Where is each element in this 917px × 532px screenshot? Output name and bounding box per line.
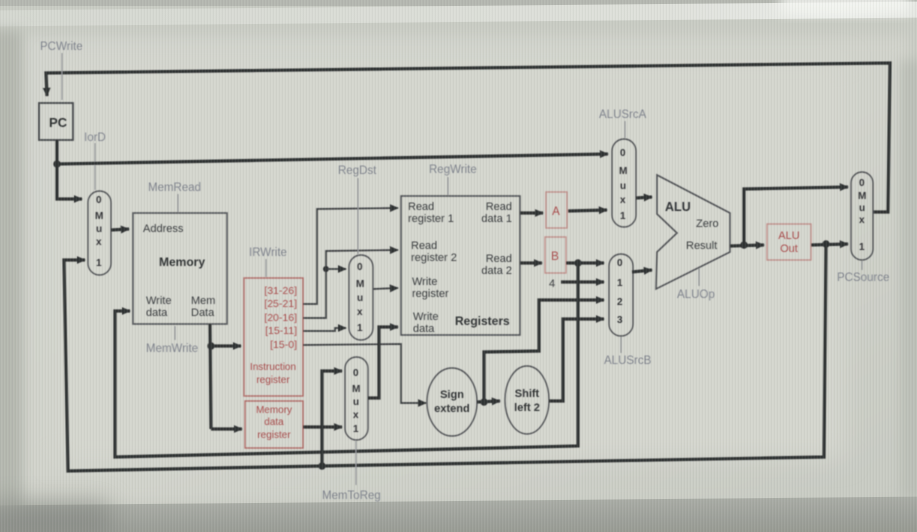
wire MemToReg mux output to Write data (368, 327, 398, 398)
wire branch to RegDst mux input 0 (326, 268, 346, 270)
wire Mem Data to instruction register (211, 344, 241, 347)
PCSource control line (861, 261, 863, 270)
ALUOp control line (698, 268, 700, 286)
MemWrite control line (174, 326, 176, 340)
memory data register (245, 401, 303, 448)
wire shift left 2 to ALUSrcB mux input 3 (549, 319, 604, 401)
node ALU Out junction (822, 240, 829, 247)
instruction register (244, 278, 303, 396)
wire IR [25-21] to Read register 1 (303, 208, 398, 304)
register file (401, 196, 520, 335)
shift left 2 unit (505, 366, 549, 434)
memory unit (133, 213, 227, 324)
node sign extend output junction (480, 398, 487, 405)
node PC-out junction (53, 160, 60, 167)
MemToReg control line (355, 441, 357, 485)
wire sign extend up to ALUSrcB mux input 2 (484, 300, 604, 402)
wire IR [15-0] to sign extend (303, 344, 426, 403)
mux MemToReg (345, 357, 368, 440)
wire ALU Out feedback bus along bottom (64, 244, 826, 471)
mux ALUSrcA (612, 139, 636, 227)
wire ALUSrcA mux output to ALU (636, 197, 652, 198)
sign extend unit (427, 368, 477, 436)
RegDst control line (357, 178, 359, 254)
wire Read data 2 to B (520, 261, 542, 264)
wire IR [15-11] to RegDst mux input 1 (303, 328, 346, 331)
RegWrite control line (447, 177, 449, 195)
node IR [20-16] branch (323, 266, 329, 272)
ALU U1 (656, 175, 730, 289)
mux PCSource (851, 172, 873, 260)
wire PC-top long feedback from PCSource mux output (46, 63, 890, 212)
wire RegDst mux output to Write register (373, 288, 398, 289)
mux ALUSrcB (609, 254, 633, 336)
wire ALUSrcB mux output to ALU (632, 270, 652, 272)
wire PC to ALUSrcA mux input 0 (57, 154, 608, 164)
wire IorD mux output to Memory Address (111, 229, 129, 230)
bottom table band (0, 496, 917, 532)
node Mem Data junction (207, 342, 214, 349)
wire ALU Out to PCSource mux input 1 (811, 244, 848, 245)
wire IR [20-16] to Read register 2 (303, 250, 398, 318)
wire Mem Data to memory data register (211, 427, 242, 430)
wire PC output down to IorD mux input 0 (57, 140, 82, 199)
mux IorD (88, 191, 111, 275)
wire B to ALUSrcB mux input 0 (566, 261, 604, 264)
wire Mem Data output down (210, 324, 211, 429)
MemRead control line (177, 194, 179, 212)
wire B down and along bottom to Memory Write data (115, 263, 578, 457)
wire constant 4 to ALUSrcB mux input 1 (561, 280, 604, 283)
register ALU Out (767, 224, 811, 260)
register PC (39, 103, 73, 140)
register A (546, 192, 567, 228)
node B branch (574, 259, 581, 266)
node bottom bus tap (318, 462, 325, 469)
wire sign extend to shift left 2 (477, 401, 500, 402)
left margin shading (0, 30, 22, 530)
ALUSrcB control line (620, 337, 622, 353)
IRWrite control line (265, 259, 267, 277)
wire A to ALUSrcA mux input 1 (568, 210, 607, 211)
PCWrite control line (61, 53, 63, 100)
wire memory data register to MemToReg mux input 1 (303, 425, 342, 428)
wire Read data 1 to A (520, 211, 543, 214)
IorD control line (94, 143, 96, 190)
wire ALU result to ALU Out (730, 245, 764, 246)
wire ALU result up to PCSource mux input 0 (744, 187, 848, 245)
node ALU result junction (740, 241, 747, 248)
mux RegDst (349, 255, 373, 340)
wire bus tap up to MemToReg mux input 0 (322, 371, 342, 466)
register B (545, 237, 566, 273)
ALUSrcA control line (624, 121, 626, 138)
